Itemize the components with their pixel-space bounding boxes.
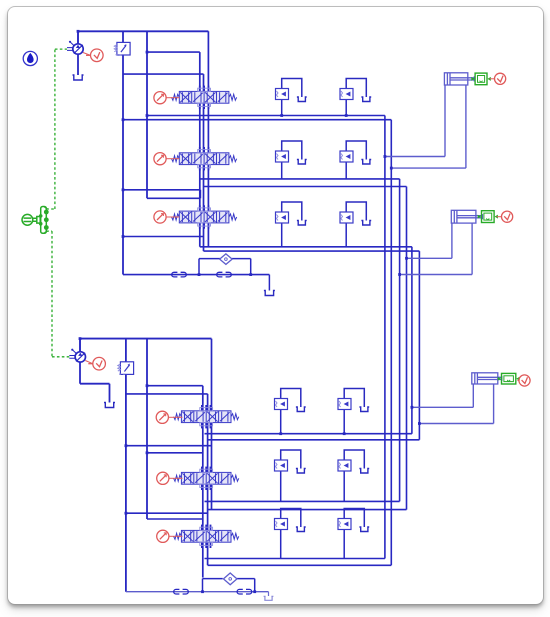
node junction [383, 155, 386, 158]
wire [253, 578, 255, 591]
gauge link [168, 535, 181, 537]
wire [410, 246, 412, 433]
wire [406, 257, 451, 259]
wire [472, 384, 474, 407]
tank (check drain) [295, 468, 305, 472]
node junction [145, 114, 148, 117]
wire [279, 470, 281, 501]
tank (check drain) [359, 406, 369, 410]
wire [147, 384, 203, 386]
wire [204, 557, 384, 559]
wire [123, 273, 269, 275]
wire [78, 30, 208, 32]
wire [418, 251, 420, 440]
pilot check valve (right) [344, 449, 364, 467]
pilot check valve (right) [344, 388, 364, 406]
mechanical shaft link (green dashed) [53, 49, 55, 209]
mechanical shaft link (green dashed) [46, 230, 52, 232]
wire [206, 393, 208, 564]
pilot check valve (right) [346, 78, 366, 96]
wire [279, 408, 281, 433]
oil drop indicator [23, 51, 37, 65]
wire [147, 197, 200, 199]
wire [343, 470, 345, 501]
gauge link A3 [517, 379, 518, 381]
load block A2 [481, 210, 494, 222]
directional valve V5 (bottom row 2) [181, 472, 231, 484]
mechanical shaft link (green dashed) [51, 231, 53, 357]
pilot check valve (left) [280, 449, 300, 467]
node junction [201, 590, 204, 593]
gauge link [166, 157, 179, 159]
node junction [342, 432, 345, 435]
wire [123, 235, 203, 237]
pump P2 [75, 351, 85, 361]
wire [464, 85, 466, 168]
wire [210, 338, 212, 509]
pilot check valve (right) [346, 140, 366, 158]
tank (bottom group return) [263, 596, 273, 600]
node junction [253, 590, 256, 593]
tank (check drain) [296, 96, 306, 100]
wire [343, 408, 345, 433]
wire [207, 31, 209, 246]
gauge V2 [153, 152, 165, 164]
node junction [279, 432, 282, 435]
wire [399, 273, 471, 275]
pilot check valve (right) [346, 201, 366, 219]
wire [147, 51, 200, 53]
node junction [145, 451, 148, 454]
gauge link A1 [489, 77, 494, 79]
node junction [121, 235, 124, 238]
node junction [389, 166, 392, 169]
filter (bottom group) [223, 572, 236, 584]
gauge at pump P2 [88, 357, 105, 370]
wire [203, 185, 406, 187]
gauge V4 [156, 411, 168, 423]
node junction [78, 337, 81, 340]
wire [77, 31, 79, 44]
wire [147, 114, 385, 116]
node junction [121, 188, 124, 191]
wire [411, 406, 472, 408]
pilot check valve (left) [280, 388, 300, 406]
tank below pump P2 [104, 402, 115, 407]
wire [108, 383, 110, 402]
pilot check valve (left) [281, 78, 301, 96]
wire [122, 31, 124, 274]
directional valve V2 (top row 2) [179, 152, 229, 164]
wire [384, 155, 444, 157]
wire [443, 85, 445, 156]
wire [199, 257, 220, 259]
wire [147, 451, 203, 453]
gauge link [166, 215, 179, 217]
wire [450, 223, 452, 258]
wire [125, 444, 211, 446]
gauge link [166, 96, 179, 98]
wire [207, 508, 406, 510]
node junction [121, 118, 124, 121]
coupling (bottom return 1) [173, 589, 188, 594]
wire [123, 118, 391, 120]
wire [231, 257, 250, 259]
wire [345, 99, 347, 115]
gauge link [168, 416, 182, 418]
wire [146, 338, 148, 518]
mechanical shaft link (green dashed) [54, 48, 66, 50]
cylinder A2 [451, 210, 482, 223]
wire [79, 338, 81, 351]
pilot check valve (left) [280, 508, 300, 526]
wire [280, 222, 282, 246]
wire [236, 577, 254, 579]
wire [146, 31, 148, 198]
wire [123, 73, 203, 75]
wire [398, 178, 400, 500]
wire [202, 74, 204, 251]
wire [207, 438, 419, 440]
wire [345, 222, 347, 246]
pump P1 [72, 43, 82, 53]
node junction [410, 405, 413, 408]
wire [471, 223, 473, 274]
load block A3 [501, 373, 515, 384]
wire [79, 362, 81, 384]
directional valve V4 (bottom row 1) [181, 410, 231, 422]
gauge V6 [156, 530, 168, 542]
coupling (top return 1) [171, 272, 186, 277]
wire [80, 382, 109, 384]
coupling (bottom return 2) [237, 589, 252, 594]
wire [203, 250, 419, 252]
wire [204, 500, 399, 502]
wire [383, 115, 385, 558]
relief valve (bottom group) [120, 361, 133, 374]
wire [80, 337, 211, 339]
gauge link pump P1 [83, 52, 90, 55]
node junction [398, 273, 401, 276]
wire [419, 422, 493, 424]
tank (check drain) [296, 220, 306, 224]
wire [201, 578, 203, 591]
wire [124, 338, 126, 591]
wire [147, 517, 203, 519]
tank (check drain) [295, 526, 305, 530]
node junction [124, 511, 127, 514]
load block A1 [475, 73, 487, 85]
wire [199, 177, 399, 179]
node junction [249, 273, 252, 276]
gauge A2 [501, 211, 512, 222]
filter (top group) [219, 253, 231, 263]
directional valve V6 (bottom row 3) [181, 530, 231, 542]
tank (check drain) [296, 159, 306, 163]
wire [280, 161, 282, 178]
wire [267, 591, 269, 595]
wire [125, 590, 268, 592]
gauge at pump P1 [86, 48, 103, 61]
wire [199, 245, 411, 247]
node junction [280, 114, 283, 117]
pilot check valve (right) [344, 508, 364, 526]
wire [202, 577, 222, 579]
wire [204, 432, 411, 434]
wire [125, 512, 207, 514]
directional valve V3 (top row 3) [179, 211, 229, 223]
gauge link [168, 477, 181, 479]
cylinder A3 [471, 372, 501, 383]
tank (check drain) [359, 526, 369, 530]
node junction [405, 256, 408, 259]
wire [198, 258, 200, 274]
engine / prime mover (green) [22, 206, 46, 233]
gauge link pump P2 [85, 360, 92, 363]
gauge A1 [494, 73, 505, 84]
tank (check drain) [361, 220, 371, 224]
tank (top group return) [263, 290, 274, 295]
tank (check drain) [359, 468, 369, 472]
wire [405, 186, 407, 509]
node junction [124, 444, 127, 447]
node junction [145, 50, 148, 53]
mechanical shaft link (green dashed) [46, 207, 55, 209]
wire [279, 528, 281, 558]
wire [201, 385, 203, 577]
wire [125, 392, 207, 394]
tank (check drain) [361, 159, 371, 163]
node junction [344, 114, 347, 117]
node junction [76, 29, 79, 32]
tank (check drain) [361, 96, 371, 100]
pilot check valve (left) [281, 140, 301, 158]
gauge A3 [518, 374, 529, 385]
wire [343, 528, 345, 558]
directional valve V1 (top row 1) [179, 91, 229, 103]
mechanical shaft link (green dashed) [52, 355, 69, 357]
wire [492, 384, 494, 423]
wire [280, 99, 282, 115]
wire [268, 274, 270, 290]
tank (check drain) [295, 406, 305, 410]
wire [390, 119, 392, 565]
wire [199, 189, 201, 197]
wire [345, 161, 347, 178]
gauge V1 [153, 91, 165, 103]
gauge link A2 [496, 215, 501, 217]
wire [198, 52, 200, 247]
node junction [417, 422, 420, 425]
coupling (top return 2) [216, 272, 231, 277]
cylinder A1 [444, 72, 474, 84]
relief valve (top group) [116, 42, 129, 55]
gauge V5 [156, 472, 168, 484]
pilot check valve (left) [281, 201, 301, 219]
node junction [145, 384, 148, 387]
wire [123, 188, 200, 190]
wire [249, 258, 251, 274]
gauge V3 [153, 210, 165, 222]
wire [77, 54, 79, 75]
node junction [197, 273, 200, 276]
wire [391, 167, 466, 169]
tank below pump P1 [72, 74, 83, 79]
wire [207, 564, 391, 566]
